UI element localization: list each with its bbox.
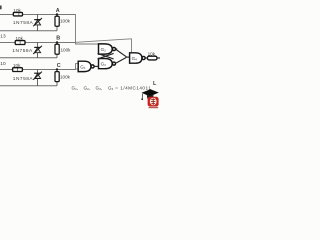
svg-text:13: 13: [0, 34, 6, 40]
svg-text:G1: G1: [80, 64, 86, 70]
svg-text:1N758A: 1N758A: [12, 48, 33, 54]
svg-text:G4: G4: [132, 56, 138, 62]
svg-text:G3: G3: [101, 62, 107, 68]
svg-text:1N758A: 1N758A: [13, 20, 34, 26]
svg-text:10k: 10k: [13, 8, 21, 13]
svg-text:1N758A: 1N758A: [13, 76, 34, 82]
svg-text:10k: 10k: [16, 36, 24, 41]
svg-text:G1,: G1,: [72, 86, 79, 92]
svg-text:100k: 100k: [61, 47, 72, 52]
svg-text:G2,: G2,: [84, 86, 91, 92]
svg-text:10: 10: [0, 61, 6, 67]
svg-text:G3,: G3,: [96, 86, 103, 92]
svg-text:100k: 100k: [60, 18, 71, 23]
svg-text:10k: 10k: [13, 63, 21, 68]
svg-text:=: =: [115, 85, 118, 90]
svg-text:10k: 10k: [148, 52, 156, 57]
svg-text:B: B: [56, 35, 60, 41]
svg-text:G4: G4: [108, 85, 114, 91]
svg-text:100k: 100k: [60, 75, 71, 80]
svg-text:A: A: [56, 8, 60, 14]
svg-text:G2: G2: [101, 47, 107, 53]
svg-text:C: C: [57, 63, 61, 69]
svg-text:1/4MC14011: 1/4MC14011: [120, 85, 151, 90]
